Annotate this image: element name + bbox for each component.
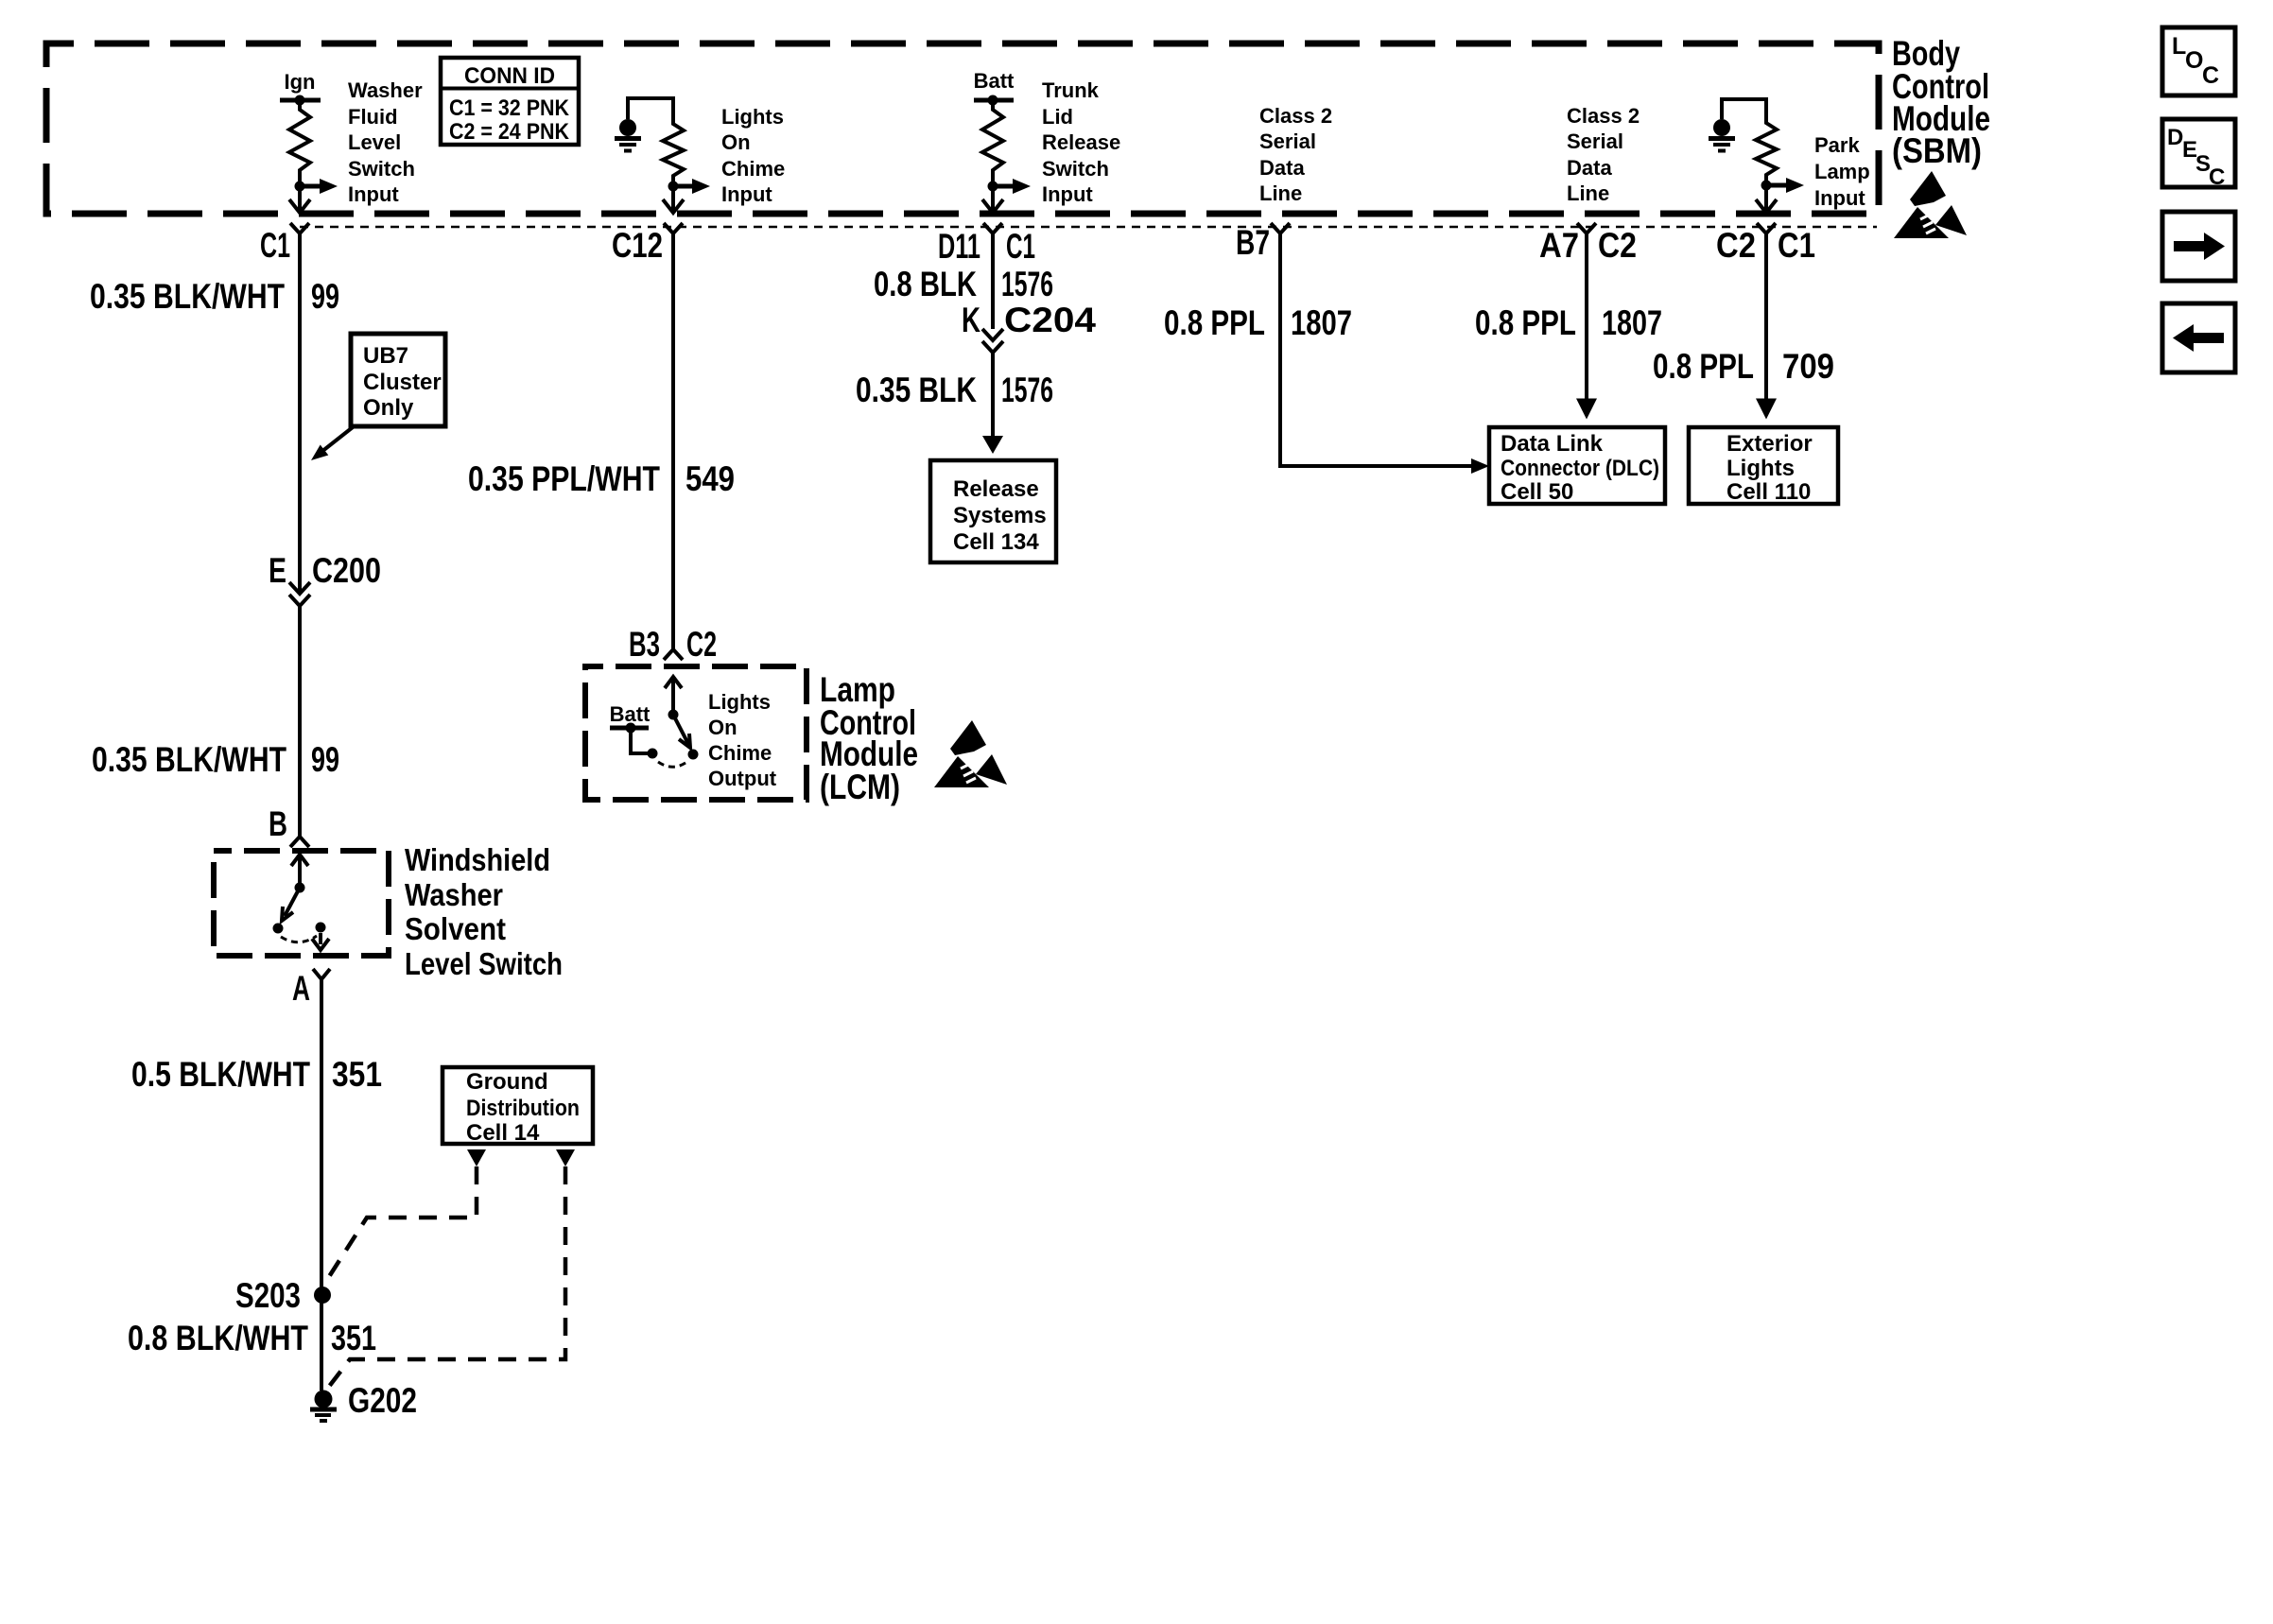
svg-text:Class 2: Class 2 <box>1259 104 1332 128</box>
svg-text:709: 709 <box>1782 347 1834 386</box>
svg-text:D: D <box>2167 125 2183 150</box>
svg-text:Switch: Switch <box>1042 157 1109 181</box>
svg-text:Cell 110: Cell 110 <box>1726 479 1811 505</box>
svg-text:Chime: Chime <box>721 157 785 181</box>
right arrow nav icon box <box>2162 212 2235 281</box>
junction dot Ign rail <box>295 95 305 106</box>
UB7 pointer arrow <box>321 427 353 452</box>
svg-text:Connector (DLC): Connector (DLC) <box>1501 456 1659 481</box>
windshield washer solvent level switch dashed box <box>214 851 389 956</box>
arrow into DLC (top) <box>1576 399 1597 420</box>
svg-text:On: On <box>708 716 737 739</box>
internal signal arrow washer input <box>300 184 320 189</box>
internal signal arrow chime input <box>673 184 692 189</box>
wire 0.8 PPL 1807 (B7) with elbow <box>1280 233 1471 466</box>
svg-text:0.35 PPL/WHT: 0.35 PPL/WHT <box>468 459 660 498</box>
wire 0.35 BLK/WHT 99 lower segment <box>298 606 302 837</box>
wire ground bracket to park resistor <box>1722 99 1766 119</box>
svg-text:Release: Release <box>1042 130 1120 154</box>
svg-text:0.35 BLK/WHT: 0.35 BLK/WHT <box>90 277 285 316</box>
LCM switch travel dashed arc <box>658 761 688 767</box>
svg-text:Lights: Lights <box>721 105 784 129</box>
resistor: lights on chime input <box>663 117 684 186</box>
connector D11 / C1 (BCM) <box>983 223 1002 233</box>
svg-text:A: A <box>292 969 310 1008</box>
LCM switch contact dot <box>688 750 699 760</box>
connector C2 / C1 park lamp (BCM) <box>1757 223 1776 233</box>
svg-text:Cluster: Cluster <box>363 370 442 395</box>
svg-text:Switch: Switch <box>348 157 415 181</box>
svg-text:Cell 134: Cell 134 <box>953 529 1039 555</box>
svg-text:Windshield: Windshield <box>405 842 550 877</box>
ground symbol lights-on-chime <box>619 119 636 136</box>
svg-text:Input: Input <box>721 182 772 206</box>
LOC nav icon box <box>2162 27 2235 95</box>
UB7 Cluster Only note box <box>351 334 445 426</box>
inline connector K C204 <box>982 329 1003 340</box>
ESD symbol BCM <box>1894 171 1967 238</box>
switch contact dot left <box>273 924 284 934</box>
Lamp Control Module dashed box <box>585 666 807 800</box>
svg-text:O: O <box>2185 47 2203 74</box>
svg-text:CONN ID: CONN ID <box>464 63 555 89</box>
svg-text:Input: Input <box>1042 182 1093 206</box>
svg-text:Batt: Batt <box>974 69 1015 93</box>
svg-text:Level: Level <box>348 130 401 154</box>
svg-text:Data: Data <box>1259 156 1305 180</box>
svg-text:Output: Output <box>708 767 777 790</box>
internal signal arrow park input <box>1766 183 1786 188</box>
ground symbol park lamp <box>1713 119 1730 136</box>
connector B7 (BCM) <box>1271 223 1290 233</box>
svg-text:Exterior: Exterior <box>1726 431 1813 457</box>
svg-text:(SBM): (SBM) <box>1892 131 1982 170</box>
svg-text:C12: C12 <box>612 226 663 265</box>
svg-text:Line: Line <box>1259 181 1302 205</box>
BCM connector face thin dashed line <box>300 226 1877 229</box>
wire 0.35 BLK 1576 <box>991 353 995 437</box>
arrow into release systems <box>982 436 1003 454</box>
junction dot Batt rail (LCM) <box>626 723 636 734</box>
svg-text:Level Switch: Level Switch <box>405 946 563 981</box>
wire park to connector <box>1764 185 1768 210</box>
svg-text:C1 = 32 PNK: C1 = 32 PNK <box>449 95 570 121</box>
svg-text:1576: 1576 <box>1001 371 1053 409</box>
arrow into exterior lights <box>1756 399 1777 420</box>
svg-text:Park: Park <box>1814 133 1860 157</box>
svg-text:Washer: Washer <box>348 78 423 102</box>
Ground Distribution Cell 14 box <box>442 1067 593 1144</box>
svg-text:C: C <box>2202 62 2219 89</box>
wire washer input to connector <box>298 186 302 210</box>
Body Control Module dashed box <box>46 43 1879 214</box>
svg-text:Release: Release <box>953 476 1039 502</box>
Exterior Lights Cell 110 box <box>1689 427 1838 504</box>
svg-text:Class 2: Class 2 <box>1567 104 1640 128</box>
connector A7 / C2 (BCM) <box>1577 223 1596 233</box>
connector pin B <box>290 837 309 847</box>
wire 0.8 PPL 1807 (A7) <box>1585 233 1588 400</box>
svg-text:0.8 BLK: 0.8 BLK <box>874 265 977 303</box>
off-page triangle left <box>467 1149 486 1166</box>
svg-text:Solvent: Solvent <box>405 911 506 946</box>
svg-text:C204: C204 <box>1004 301 1096 339</box>
svg-text:Fluid: Fluid <box>348 105 398 129</box>
svg-text:S203: S203 <box>235 1276 301 1315</box>
switch output arrow (down) <box>319 933 322 944</box>
Data Link Connector (DLC) Cell 50 box <box>1489 427 1665 504</box>
svg-text:Data: Data <box>1567 156 1612 180</box>
connector pin B3 <box>664 649 683 660</box>
switch travel dashed arc <box>281 936 317 942</box>
Batt rail wire (LCM) <box>610 726 649 731</box>
DESC nav icon box <box>2162 119 2235 187</box>
svg-text:C2: C2 <box>1598 226 1637 265</box>
svg-text:Ign: Ign <box>285 70 316 94</box>
junction dot chime node <box>668 181 679 192</box>
internal signal arrow trunk input <box>993 184 1013 189</box>
svg-text:C2: C2 <box>1716 226 1756 265</box>
junction dot park node <box>1761 181 1772 191</box>
svg-text:99: 99 <box>311 740 339 779</box>
svg-text:Data Link: Data Link <box>1501 431 1604 457</box>
junction dot trunk node <box>988 181 998 192</box>
svg-text:B: B <box>269 804 287 843</box>
svg-text:Distribution: Distribution <box>466 1096 580 1121</box>
arrow into DLC (side) <box>1471 458 1489 474</box>
wire trunk to connector <box>991 186 995 210</box>
svg-text:A7: A7 <box>1539 226 1579 265</box>
junction dot Batt rail <box>988 95 998 106</box>
wire chime to connector <box>671 186 675 210</box>
svg-text:Lamp: Lamp <box>1814 160 1870 183</box>
svg-text:B7: B7 <box>1236 223 1270 262</box>
svg-text:C200: C200 <box>312 551 381 590</box>
svg-text:Serial: Serial <box>1567 130 1623 153</box>
ground G202 symbol <box>315 1391 333 1408</box>
svg-text:L: L <box>2172 33 2186 60</box>
svg-text:Washer: Washer <box>405 877 503 912</box>
switch blade with arrowhead <box>285 888 300 916</box>
Batt feed rail wire <box>974 98 1014 103</box>
svg-text:0.35 BLK: 0.35 BLK <box>856 371 977 409</box>
dashed link S203 to ground distribution <box>323 1166 477 1286</box>
svg-text:1807: 1807 <box>1602 303 1662 342</box>
connector C1 (BCM) <box>290 223 309 233</box>
LCM output arrow (up) <box>671 678 675 715</box>
svg-text:351: 351 <box>332 1055 382 1094</box>
svg-text:0.8 PPL: 0.8 PPL <box>1475 303 1576 342</box>
connector pin A <box>313 969 330 979</box>
switch contact dot right <box>316 923 326 933</box>
svg-text:Line: Line <box>1567 181 1609 205</box>
junction dot washer input node <box>295 181 305 192</box>
svg-text:549: 549 <box>685 459 735 498</box>
svg-text:99: 99 <box>311 277 339 316</box>
svg-text:C2 = 24 PNK: C2 = 24 PNK <box>449 119 570 145</box>
svg-text:0.8 BLK/WHT: 0.8 BLK/WHT <box>128 1319 308 1357</box>
svg-text:UB7: UB7 <box>363 343 408 369</box>
resistor: trunk lid release switch input <box>982 100 1003 186</box>
connector C12 (BCM) <box>664 223 683 233</box>
svg-text:Lights: Lights <box>708 690 771 714</box>
svg-text:C: C <box>2209 164 2225 190</box>
svg-text:Lights: Lights <box>1726 456 1795 481</box>
svg-text:Chime: Chime <box>708 741 772 765</box>
off-page triangle right <box>556 1149 575 1166</box>
wire 0.8 BLK 1576 <box>991 233 995 329</box>
svg-text:0.8 PPL: 0.8 PPL <box>1653 347 1754 386</box>
svg-text:1807: 1807 <box>1291 303 1352 342</box>
splice dot S203 <box>314 1287 331 1304</box>
svg-text:Ground: Ground <box>466 1069 548 1095</box>
svg-text:D11: D11 <box>938 227 980 266</box>
svg-text:Batt: Batt <box>610 702 651 726</box>
svg-text:1576: 1576 <box>1001 265 1053 303</box>
Ign feed rail wire <box>280 98 321 103</box>
svg-text:B3: B3 <box>629 625 660 664</box>
left arrow nav icon box <box>2162 303 2235 372</box>
svg-text:Input: Input <box>348 182 399 206</box>
svg-text:Input: Input <box>1814 186 1865 210</box>
switch pivot dot <box>295 883 305 893</box>
svg-text:G202: G202 <box>348 1381 417 1420</box>
svg-text:C1: C1 <box>1006 227 1035 266</box>
svg-text:0.5 BLK/WHT: 0.5 BLK/WHT <box>131 1055 310 1094</box>
wire 0.35 BLK/WHT 99 from C1 <box>298 233 302 592</box>
svg-text:C2: C2 <box>686 625 717 664</box>
wire 0.8 PPL 709 <box>1764 233 1768 400</box>
svg-text:351: 351 <box>331 1319 376 1357</box>
svg-text:C1: C1 <box>1778 226 1815 265</box>
wire 0.35 PPL/WHT 549 <box>671 233 675 649</box>
wire ground bracket to resistor <box>628 98 673 119</box>
svg-text:On: On <box>721 130 751 154</box>
svg-text:Only: Only <box>363 395 414 421</box>
svg-text:0.35 BLK/WHT: 0.35 BLK/WHT <box>92 740 286 779</box>
ESD symbol LCM <box>934 720 1007 787</box>
resistor: washer fluid level switch input <box>289 100 310 186</box>
switch contact dot Batt side <box>648 749 658 759</box>
wire Batt to switch contact <box>631 728 651 753</box>
CONN ID table box <box>441 58 579 145</box>
Release Systems Cell 134 box <box>930 460 1056 562</box>
LCM switch blade with arrowhead <box>673 715 688 744</box>
svg-text:Systems: Systems <box>953 503 1047 528</box>
LCM switch pivot dot <box>668 710 679 720</box>
svg-text:Lid: Lid <box>1042 105 1073 129</box>
resistor: park lamp input <box>1756 116 1777 185</box>
svg-text:(LCM): (LCM) <box>820 768 900 806</box>
svg-text:C1: C1 <box>260 226 290 265</box>
dashed link G202 to ground distribution <box>325 1166 565 1391</box>
inline connector E C200 <box>289 582 310 594</box>
svg-text:Cell 50: Cell 50 <box>1501 479 1573 505</box>
svg-text:Serial: Serial <box>1259 130 1316 153</box>
wire 0.5 BLK/WHT 351 <box>320 979 323 1391</box>
svg-text:0.8 PPL: 0.8 PPL <box>1164 303 1265 342</box>
svg-text:E: E <box>269 551 286 590</box>
switch common terminal arrow (up) <box>298 855 302 888</box>
svg-text:Cell 14: Cell 14 <box>466 1120 540 1146</box>
svg-text:Trunk: Trunk <box>1042 78 1100 102</box>
svg-text:K: K <box>962 301 980 339</box>
